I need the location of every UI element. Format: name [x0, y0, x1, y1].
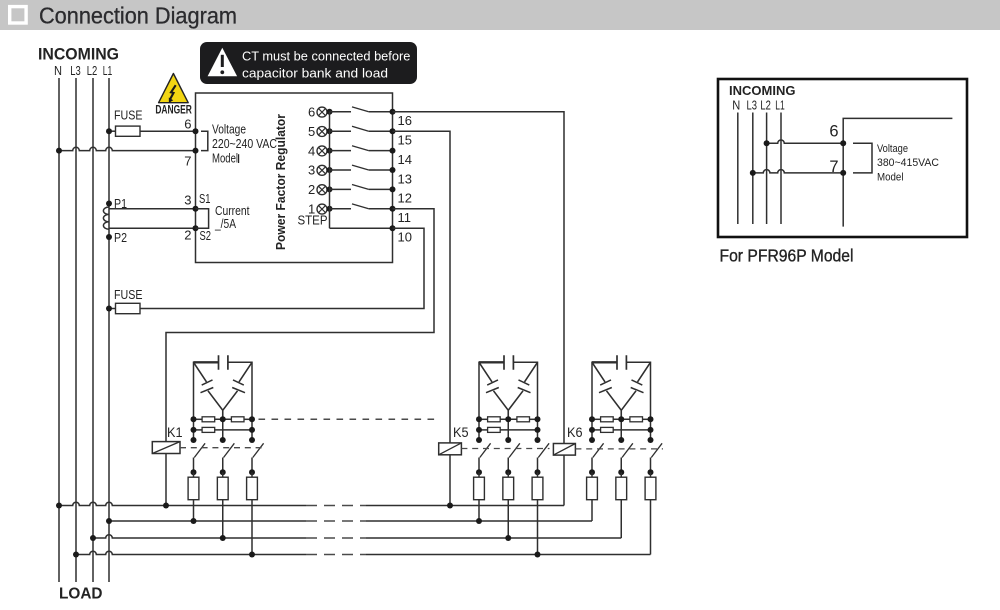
resistor bank 6 R2: [630, 417, 643, 422]
node K1 pole 2: [220, 469, 226, 475]
wire bank 5 left column: [478, 419, 480, 440]
resistor bank 6 R3: [601, 427, 614, 432]
svg-text:DANGER: DANGER: [155, 103, 192, 117]
wire K6 pole 1 to bus: [591, 472, 593, 521]
wire K1 pole 1 to bus: [193, 472, 195, 521]
contactor K6 pole 3 blade: [651, 443, 662, 457]
node K5 pole 1: [476, 469, 482, 475]
resistor bank 5 R3: [488, 427, 501, 432]
node bank 6 A3: [648, 416, 654, 422]
wire lamp 6 to switch: [330, 111, 352, 113]
svg-text:L1: L1: [775, 99, 785, 113]
inset pin 7: [840, 170, 846, 176]
svg-text:12: 12: [398, 191, 412, 206]
wire K5 pole 2 to bus: [507, 472, 509, 538]
wire K6 pole 3 to bus: [650, 472, 652, 554]
relay contact switch step 5: [352, 126, 369, 131]
bus L2 (solid right): [366, 537, 621, 539]
svg-text:LOAD: LOAD: [59, 586, 103, 603]
pin 3: [193, 206, 199, 212]
inset regulator box corner: [843, 118, 952, 226]
wire K5 coil to N bus: [449, 455, 451, 506]
step lamp 1 (circle-X): [317, 204, 327, 214]
text cursor artifact: [238, 154, 239, 163]
resistor bank 1 R2: [231, 417, 244, 422]
K5 mechanical linkage dashed: [461, 448, 549, 450]
inset pin 6: [840, 140, 846, 146]
wire switch to pin 13: [369, 169, 393, 171]
svg-text:FUSE: FUSE: [114, 109, 143, 123]
svg-text:L3: L3: [70, 64, 81, 78]
capacitor C1a (top) plates: [219, 355, 228, 370]
node bank 6 C1: [589, 437, 595, 443]
junction step bus / lamp 5: [327, 128, 333, 134]
wire switch to pin 16: [369, 111, 393, 113]
wire switch to pin 11: [369, 208, 393, 210]
CT terminal P1: [106, 201, 112, 207]
fuse K6 pole 3: [645, 477, 656, 500]
bus L1 (solid right): [366, 520, 592, 522]
svg-text:FUSE: FUSE: [114, 288, 143, 302]
svg-text:15: 15: [398, 133, 412, 148]
pin 6: [193, 128, 199, 134]
capacitor C6a (top) plates: [617, 355, 626, 370]
wire L3 vertical: [75, 78, 77, 582]
wire K1 pole 2 to bus: [222, 472, 224, 538]
junction step bus / lamp 6: [327, 109, 333, 115]
pin 12: [390, 186, 396, 192]
wire bank 1 row A: [194, 418, 203, 420]
contactor K1 pole 2 blade: [224, 443, 235, 457]
svg-text:3: 3: [308, 163, 315, 178]
junction L1 / F2: [106, 306, 112, 312]
fuse F2: [116, 303, 141, 313]
svg-text:Model: Model: [877, 171, 904, 183]
DANGER warning triangle: [159, 74, 189, 103]
svg-text:P2: P2: [114, 230, 127, 245]
capacitor C5b (left diagonal): [479, 362, 508, 419]
wire bank 1 left column: [193, 419, 195, 440]
node bank 1 B1: [191, 427, 197, 433]
svg-text:N: N: [732, 99, 740, 113]
pin 15: [390, 128, 396, 134]
node bank 5 A1: [476, 416, 482, 422]
node K1 pole 3: [249, 469, 255, 475]
svg-text:For PFR96P Model: For PFR96P Model: [720, 246, 854, 266]
wire switch to pin 12: [369, 188, 393, 190]
svg-text:S1: S1: [199, 191, 211, 206]
node bank 1 A1: [191, 416, 197, 422]
wire K5 pole 2: [507, 458, 509, 473]
node bank 6 C3: [648, 437, 654, 443]
wire bank 5 row B: [479, 429, 488, 431]
wire K1 coil to N bus: [165, 454, 167, 506]
svg-text:6: 6: [308, 105, 315, 120]
capacitor C1b (left diagonal): [194, 362, 223, 419]
wire N vertical: [58, 78, 60, 582]
node K5 pole 3: [535, 469, 541, 475]
bus L1 dashed segment: [306, 520, 366, 522]
relay contact switch step 6: [352, 107, 369, 112]
step lamp 3 (circle-X): [317, 165, 327, 175]
junction L1 / bus: [106, 518, 112, 524]
node bank 5 B3: [535, 427, 541, 433]
svg-text:N: N: [54, 64, 62, 78]
svg-text:220~240 VAC: 220~240 VAC: [212, 137, 277, 151]
wire lamp 2 to switch: [330, 188, 352, 190]
svg-text:K6: K6: [567, 424, 583, 440]
svg-text:_/5A: _/5A: [214, 217, 236, 231]
wire bank 1 row B: [194, 429, 203, 431]
wire CT S2 to pin 2: [109, 227, 196, 229]
svg-text:STEP: STEP: [298, 214, 328, 228]
bus N dashed segment: [306, 505, 366, 507]
svg-text:S2: S2: [200, 228, 212, 243]
junction K1 pole2 / L2 bus: [220, 535, 226, 541]
wire K6 pole 2: [620, 458, 622, 473]
node K6 pole 3: [648, 469, 654, 475]
contactor K6 pole 2 blade: [622, 443, 633, 457]
inset wire L2 vertical: [766, 113, 768, 225]
svg-text:Current: Current: [215, 204, 250, 218]
capacitor bank 6: frame wires: [592, 362, 651, 419]
wire K5 pole 3 to bus: [537, 472, 539, 554]
wire bank 1 middle column: [222, 419, 224, 440]
svg-text:2: 2: [308, 182, 315, 197]
capacitor bank 1: frame wires: [194, 362, 253, 419]
svg-text:INCOMING: INCOMING: [38, 45, 119, 64]
svg-text:capacitor bank and load: capacitor bank and load: [242, 66, 388, 81]
wire bank 1 right column: [251, 419, 253, 440]
wire K5 pole 1: [478, 458, 480, 473]
wire CT S1 to pin 3: [109, 208, 196, 210]
K1 coil slash: [152, 442, 180, 454]
wire L1 vertical: [108, 78, 110, 582]
wire bank 6 middle column: [620, 419, 622, 440]
contactor K1 pole 1 blade: [194, 443, 205, 457]
wire bank 6 row A: [592, 418, 601, 420]
capacitor C1c (right diagonal): [223, 362, 252, 410]
node bank 1 A2: [220, 416, 226, 422]
fuse K5 pole 3: [532, 477, 543, 500]
pin 2: [193, 225, 199, 231]
wire fuse F1 to pin 6: [140, 130, 196, 132]
step lamp 6 (circle-X): [317, 107, 327, 117]
header bar: [0, 0, 1000, 30]
capacitor C6c (right diagonal): [621, 362, 650, 410]
contactor K5 pole 1 blade: [480, 443, 491, 457]
step common bus to pin 10: [330, 227, 393, 229]
bus L3 (solid left): [76, 551, 306, 554]
svg-text:6: 6: [829, 123, 838, 141]
svg-text:Voltage: Voltage: [877, 143, 908, 155]
node bank 1 C3: [249, 437, 255, 443]
inset wire L2 to pin 6: [767, 140, 844, 143]
pin 7: [193, 148, 199, 154]
junction L1 / F1: [106, 128, 112, 134]
bus L2 dashed segment: [306, 537, 366, 539]
svg-text:10: 10: [398, 230, 412, 245]
inset junction L3: [750, 170, 756, 176]
node bank 6 B1: [589, 427, 595, 433]
junction N / pin7 wire: [56, 148, 62, 154]
lightning bolt icon: [170, 85, 176, 99]
step lamp 5 (circle-X): [317, 127, 327, 137]
junction step bus / lamp 1: [327, 206, 333, 212]
wire pin 11 to K1 coil: [166, 209, 434, 442]
wire K6 pole 1: [591, 458, 593, 473]
bus L3 (solid right): [366, 554, 651, 556]
fuse K1 pole 1: [188, 477, 199, 500]
wire K1 pole 3: [251, 458, 253, 473]
pin 11: [390, 206, 396, 212]
wire K5 pole 3: [537, 458, 539, 473]
junction K1 pole1 / L1 bus: [191, 518, 197, 524]
svg-text:14: 14: [398, 152, 412, 167]
capacitor C6b (left diagonal): [592, 362, 621, 419]
bus L2 (solid left): [93, 535, 306, 538]
wire K6 pole 3: [650, 458, 652, 473]
junction step bus / lamp 2: [327, 186, 333, 192]
node bank 1 A3: [249, 416, 255, 422]
node bank 6 C2: [618, 437, 624, 443]
pin 10: [390, 225, 396, 231]
fuse K1 pole 2: [217, 477, 228, 500]
svg-text:5: 5: [308, 124, 315, 139]
node bank 5 B1: [476, 427, 482, 433]
wire K6 pole 2 to bus: [620, 472, 622, 538]
svg-text:380~415VAC: 380~415VAC: [877, 157, 939, 169]
svg-text:INCOMING: INCOMING: [729, 83, 795, 98]
node bank 6 A2: [618, 416, 624, 422]
wire K6 coil to N bus: [563, 455, 565, 505]
wire pin 10 to fuse F2: [140, 228, 424, 308]
step lamp 4 (circle-X): [317, 146, 327, 156]
bus N (solid right): [366, 505, 564, 507]
contactor K5 coil: [439, 443, 462, 455]
wire L2 vertical: [92, 78, 94, 582]
fuse K5 pole 1: [474, 477, 485, 500]
svg-text:K5: K5: [453, 424, 469, 440]
wire bank 5 middle column: [507, 419, 509, 440]
junction L3 / bus: [73, 552, 79, 558]
svg-text:16: 16: [398, 113, 412, 128]
svg-text:13: 13: [398, 171, 412, 186]
contactor K6 pole 1 blade: [593, 443, 604, 457]
inset wire L3 vertical: [752, 113, 754, 225]
svg-text:L3: L3: [747, 99, 758, 113]
step common bus vertical: [329, 112, 331, 228]
relay contact switch step 4: [352, 146, 369, 151]
resistor bank 5 R2: [517, 417, 530, 422]
junction K1 pole3 / L3 bus: [249, 552, 255, 558]
K1 mechanical linkage dashed: [180, 447, 264, 449]
wire bank 6 left column: [591, 419, 593, 440]
svg-text:4: 4: [308, 143, 315, 158]
pin 16: [390, 109, 396, 115]
fuse K5 pole 2: [503, 477, 514, 500]
node bank 5 A3: [535, 416, 541, 422]
CT warning box: [200, 42, 417, 84]
relay contact switch step 2: [352, 185, 369, 190]
junction step bus / lamp 4: [327, 148, 333, 154]
svg-text:6: 6: [184, 117, 191, 132]
inset wire N vertical: [737, 113, 739, 225]
wire bank 6 row B: [592, 429, 601, 431]
svg-text:7: 7: [184, 154, 191, 169]
resistor bank 1 R1: [202, 417, 215, 422]
svg-text:L2: L2: [760, 99, 771, 113]
node bank 5 C3: [535, 437, 541, 443]
wire lamp 5 to switch: [330, 130, 352, 132]
node bank 6 B3: [648, 427, 654, 433]
power factor regulator U1 box: [196, 93, 393, 263]
dashed wire row A (omitted banks): [259, 418, 441, 420]
wire bank 5 right column: [537, 419, 539, 440]
svg-text:K1: K1: [167, 424, 183, 440]
CT secondary coil: [103, 207, 109, 229]
header square icon: [10, 7, 26, 23]
junction K5 pole1 / L1 bus: [476, 518, 482, 524]
contactor K5 pole 3 blade: [538, 443, 549, 457]
wire lamp 4 to switch: [330, 150, 352, 152]
node bank 5 C2: [505, 437, 511, 443]
svg-text:11: 11: [398, 210, 412, 225]
node bank 6 A1: [589, 416, 595, 422]
node bank 1 C2: [220, 437, 226, 443]
node K6 pole 1: [589, 469, 595, 475]
wire K1 pole 3 to bus: [251, 472, 253, 554]
svg-text:Power Factor Regulator: Power Factor Regulator: [273, 114, 288, 250]
relay contact switch step 3: [352, 165, 369, 170]
svg-text:Model: Model: [212, 151, 238, 165]
inset wire L3 to pin 7: [753, 170, 843, 173]
node K6 pole 2: [618, 469, 624, 475]
current pins bracket: [196, 209, 209, 228]
junction L2 / bus: [90, 535, 96, 541]
fuse F1: [116, 126, 141, 136]
svg-text:7: 7: [829, 158, 838, 176]
contactor K1 pole 3 blade: [253, 443, 264, 457]
bus L1 (solid left): [109, 520, 306, 522]
wire switch to pin 15: [369, 130, 393, 132]
svg-text:CT must be connected before: CT must be connected before: [242, 49, 410, 64]
capacitor bank 5: frame wires: [479, 362, 538, 419]
wire pin 15 to K5 coil: [393, 131, 451, 443]
node K1 pole 1: [191, 469, 197, 475]
svg-text:Voltage: Voltage: [212, 123, 246, 137]
inset box PFR96P: [718, 79, 967, 237]
wire K5 pole 1 to bus: [478, 472, 480, 521]
bus L3 dashed segment: [306, 554, 366, 556]
capacitor C5a (top) plates: [504, 355, 513, 370]
fuse K6 pole 2: [616, 477, 627, 500]
capacitor C5c (right diagonal): [508, 362, 537, 410]
CT terminal P2: [106, 234, 112, 240]
wire K1 pole 2: [222, 458, 224, 473]
contactor K6 coil: [553, 444, 575, 456]
warning triangle icon: [208, 48, 238, 77]
node bank 1 B3: [249, 427, 255, 433]
svg-text:L2: L2: [87, 64, 98, 78]
node K5 pole 2: [505, 469, 511, 475]
junction N / bus: [56, 503, 62, 509]
inset junction L2: [764, 140, 770, 146]
wire N to pin 7: [59, 147, 196, 150]
contactor K5 pole 2 blade: [509, 443, 520, 457]
step lamp 2 (circle-X): [317, 185, 327, 195]
junction K5 coil / N bus: [447, 503, 453, 509]
resistor bank 1 R3: [202, 427, 215, 432]
K6 coil slash: [553, 444, 575, 456]
K5 coil slash: [439, 443, 462, 455]
node bank 5 C1: [476, 437, 482, 443]
resistor bank 5 R1: [488, 417, 501, 422]
svg-text:3: 3: [184, 193, 191, 208]
relay contact switch step 1: [352, 204, 369, 209]
voltage pins bracket: [201, 131, 208, 150]
wire L1 to fuse F1: [109, 130, 116, 132]
junction K5 pole2 / L2 bus: [505, 535, 511, 541]
bus N (solid left): [59, 502, 306, 505]
svg-text:L1: L1: [103, 64, 113, 78]
fuse K1 pole 3: [247, 477, 258, 500]
wire bank 5 row A: [479, 418, 488, 420]
wire L1 to fuse F2: [109, 308, 116, 310]
fuse K6 pole 1: [587, 477, 598, 500]
pin 14: [390, 148, 396, 154]
pin 13: [390, 167, 396, 173]
wire K1 pole 1: [193, 458, 195, 473]
wire lamp 1 to switch: [330, 208, 352, 210]
node bank 5 A2: [505, 416, 511, 422]
wire switch to pin 14: [369, 150, 393, 152]
node bank 1 C1: [191, 437, 197, 443]
K6 mechanical linkage dashed: [575, 448, 663, 450]
svg-text:2: 2: [184, 228, 191, 243]
inset wire L1 vertical: [780, 113, 782, 225]
contactor K1 coil: [152, 442, 180, 454]
wire lamp 3 to switch: [330, 169, 352, 171]
wire bank 6 right column: [650, 419, 652, 440]
resistor bank 6 R1: [601, 417, 614, 422]
inset voltage bracket: [853, 143, 872, 173]
junction K5 pole3 / L3 bus: [535, 552, 541, 558]
svg-text:Connection Diagram: Connection Diagram: [39, 3, 237, 29]
junction step bus / lamp 3: [327, 167, 333, 173]
wire pin 16 to K6 coil: [393, 112, 565, 444]
junction K1 coil / N bus: [163, 503, 169, 509]
